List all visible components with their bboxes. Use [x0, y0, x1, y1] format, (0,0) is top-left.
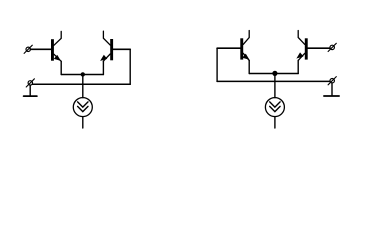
wire — [308, 47, 330, 49]
port P2 — [26, 79, 34, 87]
wire — [217, 80, 330, 82]
current source I2 — [265, 98, 284, 117]
port P4 — [328, 77, 336, 85]
ground — [24, 95, 37, 97]
wire — [33, 83, 131, 85]
wire — [274, 117, 276, 128]
wire — [274, 74, 276, 98]
transistor Q3 — [240, 31, 249, 61]
wire — [248, 60, 250, 73]
wire — [29, 85, 31, 96]
junction dot — [272, 71, 277, 76]
wire — [217, 47, 240, 49]
port P1 — [24, 45, 32, 53]
transistor Q4 — [297, 31, 307, 61]
transistor Q1 — [51, 31, 61, 61]
ground — [324, 95, 339, 97]
wire — [113, 48, 130, 50]
wire — [331, 83, 333, 96]
wire — [216, 48, 218, 81]
wire — [30, 48, 51, 50]
junction dot — [81, 72, 85, 76]
port P3 — [328, 43, 336, 51]
current source I1 — [73, 98, 92, 117]
transistor Q2 — [101, 31, 113, 61]
wire — [297, 60, 299, 73]
wire — [82, 117, 84, 128]
wire — [61, 74, 103, 76]
wire — [102, 61, 104, 74]
wire — [249, 73, 298, 75]
wire — [60, 61, 62, 74]
wire — [129, 49, 131, 84]
wire — [82, 75, 84, 98]
